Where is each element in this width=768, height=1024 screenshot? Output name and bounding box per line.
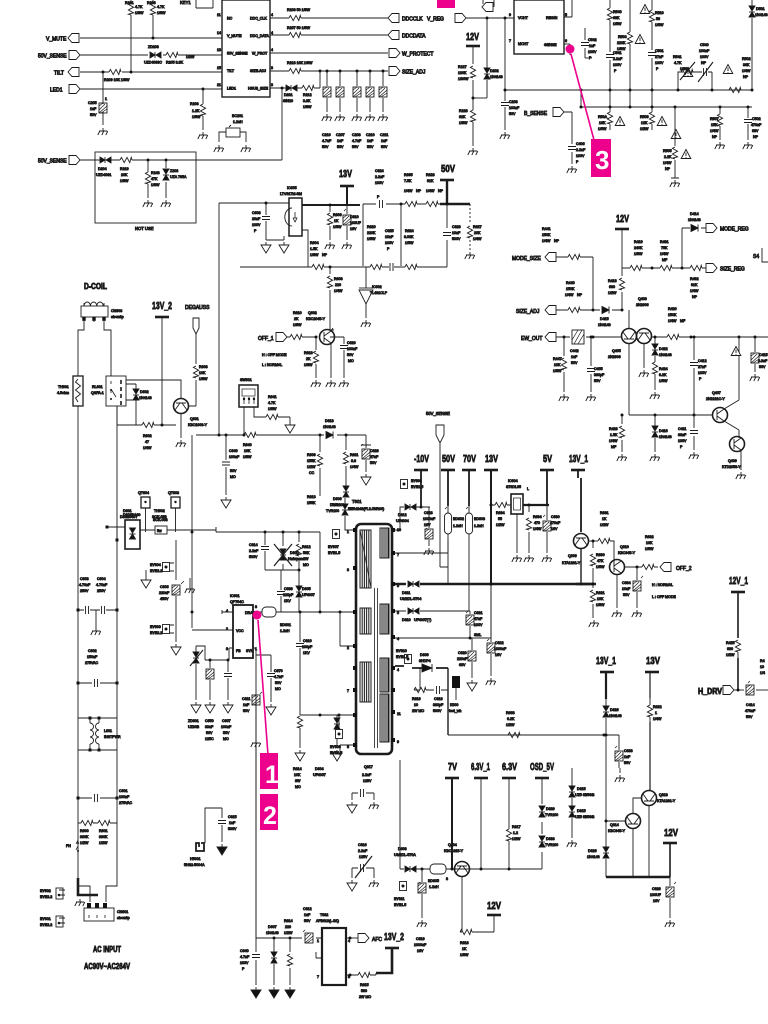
capacitor C670 4.7nF bbox=[256, 655, 284, 702]
svg-text:220K: 220K bbox=[617, 41, 626, 45]
resistor R420 150K on EW bus bbox=[667, 307, 686, 340]
resistor R622 1ohm bbox=[647, 698, 662, 722]
optocoupler IC605 LTV817M bbox=[280, 186, 302, 236]
wire riser x581 bbox=[580, 90, 582, 107]
wire R201 down to TILT line bbox=[130, 38, 132, 72]
nodes on bus y107 bbox=[609, 106, 612, 109]
wire bus y715 bbox=[300, 714, 356, 716]
svg-text:1/4W: 1/4W bbox=[473, 237, 482, 241]
svg-text:FH: FH bbox=[66, 844, 71, 848]
node R541 bbox=[677, 89, 680, 92]
wire relay to diode loop bbox=[126, 384, 136, 404]
svg-text:1N4148: 1N4148 bbox=[755, 13, 768, 17]
svg-text:KTA1281-Y: KTA1281-Y bbox=[657, 799, 676, 803]
ground R423 bbox=[617, 454, 627, 461]
wire MCU section bottom rail bbox=[80, 159, 282, 161]
svg-text:UF4007(T): UF4007(T) bbox=[414, 618, 431, 622]
svg-text:C612: C612 bbox=[303, 907, 312, 911]
svg-text:50V: 50V bbox=[509, 112, 516, 116]
svg-text:450V: 450V bbox=[160, 597, 169, 601]
svg-text:C203: C203 bbox=[352, 133, 361, 137]
svg-text:1uF: 1uF bbox=[571, 355, 578, 359]
svg-text:R613: R613 bbox=[307, 495, 316, 499]
svg-text:470uF: 470uF bbox=[550, 521, 561, 525]
svg-text:7: 7 bbox=[397, 553, 399, 557]
relay RL601 QSFA-1 bbox=[91, 376, 126, 406]
zener D422 1N4148 bbox=[652, 336, 672, 363]
svg-text:100UF: 100UF bbox=[650, 893, 662, 897]
svg-text:Q602: Q602 bbox=[308, 311, 317, 315]
svg-text:500V: 500V bbox=[452, 237, 461, 241]
ground opto open bbox=[279, 242, 289, 253]
diode D626b 1N4148 bbox=[587, 847, 609, 877]
svg-text:AC90V~AC264V: AC90V~AC264V bbox=[84, 962, 131, 971]
svg-text:50V: 50V bbox=[759, 365, 766, 369]
svg-text:UF4004: UF4004 bbox=[396, 519, 409, 523]
svg-text:16V: 16V bbox=[495, 653, 502, 657]
wire 50V_SENSE net vertical riser bbox=[281, 88, 283, 160]
svg-text:2W: 2W bbox=[303, 557, 309, 561]
svg-text:10K: 10K bbox=[646, 541, 653, 545]
svg-text:Q610: Q610 bbox=[620, 545, 629, 549]
svg-text:1/4W: 1/4W bbox=[426, 189, 435, 193]
svg-text:C542: C542 bbox=[588, 38, 597, 42]
svg-text:NP: NP bbox=[322, 253, 328, 257]
svg-text:1/8W: 1/8W bbox=[199, 377, 208, 381]
wire Q609 base bbox=[589, 540, 598, 542]
svg-text:100V: 100V bbox=[700, 55, 709, 59]
svg-text:QT604: QT604 bbox=[138, 491, 149, 495]
svg-text:H : OFF MODE: H : OFF MODE bbox=[262, 353, 287, 357]
wire SW601 legs bbox=[244, 407, 290, 435]
svg-text:SW601: SW601 bbox=[240, 378, 252, 382]
svg-text:R617: R617 bbox=[512, 825, 521, 829]
transistor Q604 KSC1815 bbox=[444, 843, 470, 877]
wire choke bottom rail bbox=[78, 749, 117, 751]
svg-text:UZ30B: UZ30B bbox=[188, 725, 200, 729]
wire bus y107 bbox=[581, 106, 752, 108]
svg-text:68K: 68K bbox=[613, 16, 620, 20]
svg-text:1/4W: 1/4W bbox=[663, 161, 672, 165]
svg-text:R634: R634 bbox=[496, 511, 505, 515]
wire riser x320 bbox=[319, 532, 321, 612]
svg-text:D615: D615 bbox=[577, 787, 586, 791]
ground C408 bbox=[567, 166, 577, 173]
svg-text:1000uF: 1000uF bbox=[494, 647, 507, 651]
svg-text:R509: R509 bbox=[640, 115, 649, 119]
svg-text:8: 8 bbox=[347, 745, 349, 749]
svg-text:3: 3 bbox=[271, 83, 273, 87]
svg-text:W_PROT: W_PROT bbox=[252, 52, 268, 56]
capacitor C414 470nF hatched bbox=[745, 681, 768, 719]
resistor R212 3.3K bbox=[302, 85, 314, 109]
inductor BD603 1.2uH bbox=[466, 507, 486, 534]
capacitor C606 220uF 450V bbox=[159, 540, 184, 642]
svg-text:1/2W: 1/2W bbox=[99, 841, 108, 845]
wire thick out bus y877 bbox=[606, 876, 670, 879]
wire V_MUTE bbox=[80, 37, 222, 39]
svg-text:12V_1: 12V_1 bbox=[729, 575, 748, 587]
grounds OFF_1 cluster bbox=[311, 380, 321, 387]
resistor R611 6.8 vertical bbox=[343, 435, 359, 478]
diode D607 1N4148 bbox=[266, 925, 279, 985]
svg-text:1/5W: 1/5W bbox=[598, 127, 607, 131]
svg-text:C415: C415 bbox=[759, 353, 768, 357]
node R608 bbox=[329, 266, 332, 269]
ground C405 bbox=[586, 394, 596, 401]
capacitor C628 10nF bbox=[443, 225, 461, 241]
svg-text:50V: 50V bbox=[367, 145, 374, 149]
wire DDC_CLK row with resistor R208 bbox=[270, 17, 388, 19]
svg-text:1/4W: 1/4W bbox=[334, 289, 343, 293]
diode D608 U3/2DL-570A bbox=[394, 847, 416, 872]
svg-text:R228: R228 bbox=[459, 109, 468, 113]
svg-text:125V: 125V bbox=[359, 855, 368, 859]
ground below ZD205 bbox=[161, 200, 171, 207]
svg-text:C501: C501 bbox=[655, 49, 664, 53]
wire row y268 bbox=[622, 267, 706, 269]
svg-text:220K: 220K bbox=[367, 231, 376, 235]
ground C606 open bbox=[171, 644, 181, 655]
resistor R201 4.7K vertical bbox=[125, 0, 144, 38]
svg-text:D612: D612 bbox=[398, 513, 407, 517]
svg-text:HSUB_SIZE: HSUB_SIZE bbox=[248, 87, 269, 91]
svg-text:1.2: 1.2 bbox=[513, 831, 518, 835]
capacitor C622 1000uF bbox=[487, 584, 507, 676]
svg-text:47uF: 47uF bbox=[370, 455, 379, 459]
wire bus435 left corner to x192 riser bbox=[191, 435, 193, 628]
wire DDC_DATA row with resistor R207 bbox=[270, 34, 388, 36]
svg-text:TILT: TILT bbox=[227, 69, 235, 73]
svg-text:50V: 50V bbox=[352, 145, 359, 149]
svg-text:11: 11 bbox=[217, 13, 221, 17]
svg-text:1/5W: 1/5W bbox=[596, 603, 605, 607]
svg-text:EYE2.2: EYE2.2 bbox=[150, 631, 162, 635]
wire 6.3V_1 down bbox=[480, 778, 482, 869]
wire 7V down thick bbox=[451, 778, 453, 869]
connector W_PROTECT bbox=[389, 49, 400, 58]
capacitor C624 2.2nF bbox=[375, 169, 385, 208]
svg-text:130K: 130K bbox=[458, 71, 467, 75]
svg-text:LED1: LED1 bbox=[50, 88, 63, 94]
svg-text:C614: C614 bbox=[249, 543, 258, 547]
wire opto bottom right to R604 row bbox=[240, 230, 366, 267]
ground below R203 bbox=[198, 132, 208, 139]
svg-text:U3/2DL-5704: U3/2DL-5704 bbox=[400, 597, 421, 601]
svg-text:EY610: EY610 bbox=[396, 649, 407, 653]
svg-text:4: 4 bbox=[348, 939, 350, 943]
ground C630 bbox=[542, 555, 552, 562]
zener D416 1N4148 bbox=[652, 415, 672, 452]
resistor R447 10K vertical bbox=[553, 336, 567, 393]
resistor R509 12K below bus bbox=[640, 107, 655, 131]
svg-text:C604: C604 bbox=[97, 577, 106, 581]
svg-text:3: 3 bbox=[226, 647, 228, 651]
capacitor C203 100nF bbox=[501, 90, 520, 130]
warning triangle d bbox=[723, 65, 733, 74]
zener D204 UZD4091 bbox=[96, 157, 111, 177]
svg-text:C205: C205 bbox=[88, 101, 97, 105]
svg-text:1/8W: 1/8W bbox=[293, 323, 302, 327]
capacitor C620b 220uF bbox=[457, 638, 476, 678]
wire Q601 emitter bbox=[180, 414, 182, 438]
transformer left pins bbox=[353, 528, 357, 747]
ground R616 open bbox=[295, 750, 305, 761]
ground C203 bbox=[500, 132, 510, 139]
svg-text:1/8W: 1/8W bbox=[268, 407, 277, 411]
connector OFF_2 bbox=[660, 563, 671, 572]
svg-text:50V: 50V bbox=[571, 361, 578, 365]
inductor BC201 1.2uH bbox=[214, 114, 251, 152]
diode D201 SIN20 bbox=[283, 85, 297, 103]
svg-text:560: 560 bbox=[361, 989, 367, 993]
warning triangle h bbox=[681, 150, 691, 159]
svg-text:56K: 56K bbox=[303, 551, 310, 555]
svg-text:1/8W: 1/8W bbox=[151, 183, 160, 187]
svg-text:R201: R201 bbox=[125, 1, 134, 5]
svg-text:TL431CLP: TL431CLP bbox=[370, 291, 388, 295]
svg-text:KTD2058-Y: KTD2058-Y bbox=[722, 465, 741, 469]
svg-text:R203: R203 bbox=[190, 102, 199, 106]
svg-text:D611: D611 bbox=[402, 591, 410, 595]
svg-text:50V: 50V bbox=[243, 709, 250, 713]
svg-text:IC605: IC605 bbox=[287, 186, 297, 190]
wire D609 out riser bbox=[447, 668, 449, 735]
ground IC604 bbox=[512, 555, 522, 562]
svg-text:DDC_DATA: DDC_DATA bbox=[250, 34, 269, 38]
svg-text:DDC_CLK: DDC_CLK bbox=[250, 17, 267, 21]
svg-text:R208 50 1/8W: R208 50 1/8W bbox=[287, 8, 311, 12]
svg-text:220uF: 220uF bbox=[457, 657, 468, 661]
svg-text:R50A: R50A bbox=[598, 115, 608, 119]
wire 13V_2 down bbox=[161, 317, 163, 425]
svg-text:100UF: 100UF bbox=[350, 221, 362, 225]
capacitor C607 100nF bbox=[221, 659, 232, 742]
resistor R206 4.7K vertical bbox=[147, 0, 166, 38]
resistor R603 10K vertical bbox=[193, 365, 208, 381]
svg-text:1/8W: 1/8W bbox=[135, 11, 144, 15]
svg-text:NP: NP bbox=[665, 167, 671, 171]
svg-text:1/4W: 1/4W bbox=[350, 465, 359, 469]
resistor R500 220K vertical bbox=[617, 0, 633, 107]
wire Q610 row y567 bbox=[625, 566, 658, 568]
ground Q409 bbox=[736, 472, 746, 479]
svg-text:FB: FB bbox=[236, 649, 241, 653]
svg-text:1/2W: 1/2W bbox=[80, 841, 89, 845]
svg-text:1N4148: 1N4148 bbox=[659, 353, 672, 357]
ground AC hatched bbox=[75, 899, 85, 906]
ground IC602 bbox=[361, 320, 371, 327]
svg-text:4: 4 bbox=[271, 13, 273, 17]
svg-text:6.2K: 6.2K bbox=[507, 717, 515, 721]
resistor R600 330K bbox=[78, 820, 95, 845]
wire bridge out bbox=[140, 529, 216, 531]
svg-text:R614: R614 bbox=[284, 919, 293, 923]
svg-text:C619: C619 bbox=[416, 937, 425, 941]
node V_REG riser bbox=[486, 17, 489, 20]
transformer winding right bottom bbox=[380, 694, 389, 742]
svg-text:4.7K: 4.7K bbox=[268, 401, 276, 405]
svg-text:1.2uH: 1.2uH bbox=[453, 524, 463, 528]
svg-text:5HS2-5004A: 5HS2-5004A bbox=[184, 863, 205, 867]
svg-text:EYE2.2: EYE2.2 bbox=[40, 923, 52, 927]
resistor R663 6.2K bbox=[506, 711, 520, 738]
wire SIZE_ADJ row with resistor R213 10K bbox=[270, 70, 388, 72]
svg-text:R611: R611 bbox=[350, 453, 358, 457]
svg-text:R419: R419 bbox=[634, 240, 643, 244]
svg-text:50V: 50V bbox=[441, 163, 455, 175]
svg-text:1/8W: 1/8W bbox=[680, 67, 689, 71]
svg-text:1K: 1K bbox=[602, 517, 607, 521]
resistor R502 36K on bus bbox=[726, 57, 752, 93]
wire R619 branch bbox=[414, 668, 434, 690]
wire Q604 emitter to R618 bbox=[460, 877, 494, 932]
svg-text:C607: C607 bbox=[222, 719, 231, 723]
svg-text:155K: 155K bbox=[307, 501, 316, 505]
diode D60D crossed bbox=[265, 531, 304, 571]
svg-text:R447: R447 bbox=[553, 357, 562, 361]
wire transformer leg to bus bbox=[399, 760, 401, 869]
svg-text:70V: 70V bbox=[463, 453, 476, 465]
svg-text:1/30W: 1/30W bbox=[458, 77, 469, 81]
ground R614b solid bbox=[285, 987, 295, 998]
svg-text:R632: R632 bbox=[645, 535, 654, 539]
ground below C205 bbox=[98, 128, 108, 135]
op-amp U201 MCU box bbox=[222, 0, 270, 97]
node R206/V_MUTE bbox=[152, 37, 155, 40]
ground below R243 bbox=[143, 200, 153, 207]
svg-text:C622: C622 bbox=[495, 641, 504, 645]
svg-text:4.5ohm: 4.5ohm bbox=[57, 391, 69, 395]
svg-text:1uF: 1uF bbox=[367, 139, 374, 143]
svg-text:10K: 10K bbox=[199, 371, 206, 375]
svg-text:R500: R500 bbox=[618, 35, 627, 39]
wire OFF_1 to base bbox=[287, 336, 316, 338]
svg-text:KSC1008-Y: KSC1008-Y bbox=[188, 423, 208, 427]
svg-text:D-COIL: D-COIL bbox=[84, 282, 107, 291]
resistor R610 2K bbox=[290, 311, 302, 340]
ground D618 open bbox=[332, 750, 342, 761]
svg-text:1/2W: 1/2W bbox=[726, 653, 735, 657]
svg-text:250V: 250V bbox=[80, 589, 89, 593]
svg-text:1uF: 1uF bbox=[90, 107, 97, 111]
svg-text:100V: 100V bbox=[698, 371, 707, 375]
svg-text:Q408: Q408 bbox=[638, 297, 647, 301]
svg-text:C210: C210 bbox=[322, 133, 331, 137]
capacitor C612 1uF hatched on bus bbox=[303, 907, 313, 943]
svg-text:13V_1: 13V_1 bbox=[569, 453, 588, 465]
wire Q614 base row bbox=[606, 820, 625, 822]
svg-text:MO: MO bbox=[230, 475, 236, 479]
capacitor C408 2.2nF bbox=[568, 142, 586, 164]
svg-text:C650: C650 bbox=[205, 719, 214, 723]
svg-text:470nF: 470nF bbox=[751, 123, 762, 127]
resistor SCK-063 box bbox=[153, 518, 168, 534]
svg-text:13: 13 bbox=[217, 48, 221, 52]
svg-text:C624: C624 bbox=[375, 169, 384, 173]
svg-text:D633: D633 bbox=[546, 837, 555, 841]
svg-text:1uF: 1uF bbox=[381, 139, 388, 143]
node y268 b bbox=[681, 267, 684, 270]
svg-text:1N4148: 1N4148 bbox=[659, 435, 672, 439]
warning triangle e bbox=[615, 117, 625, 126]
svg-text:MODE_SIZE: MODE_SIZE bbox=[512, 256, 542, 262]
transistor Q601 KSC1008 bbox=[174, 399, 208, 428]
svg-text:1uF: 1uF bbox=[624, 755, 631, 759]
svg-text:9: 9 bbox=[397, 740, 399, 744]
svg-text:C411: C411 bbox=[678, 427, 686, 431]
resistor R243 47K vertical bbox=[145, 160, 160, 198]
svg-text:SIZE_REG: SIZE_REG bbox=[720, 267, 745, 273]
ground C502 bbox=[743, 142, 753, 149]
svg-text:EY608: EY608 bbox=[330, 745, 341, 749]
svg-text:R505: R505 bbox=[663, 149, 672, 153]
svg-text:1.2K: 1.2K bbox=[192, 109, 200, 113]
capacitor C405 330pF bbox=[587, 336, 605, 393]
svg-text:R219: R219 bbox=[120, 167, 129, 171]
svg-text:MF: MF bbox=[680, 319, 686, 323]
svg-text:150nF: 150nF bbox=[87, 655, 98, 659]
resistor R227 130K bbox=[458, 65, 476, 81]
svg-text:12K: 12K bbox=[641, 121, 648, 125]
svg-text:R243: R243 bbox=[151, 171, 160, 175]
resistor R481 75K bbox=[660, 240, 672, 271]
component EY601 EYE2.2 bbox=[40, 916, 65, 927]
connector AFC bbox=[358, 934, 369, 943]
wire main bus y435 bbox=[196, 435, 366, 445]
svg-text:50V: 50V bbox=[370, 461, 377, 465]
svg-text:D602: D602 bbox=[140, 390, 149, 394]
warning triangle c bbox=[683, 68, 693, 77]
svg-text:TH601: TH601 bbox=[58, 385, 69, 389]
ground C617 left open bbox=[347, 802, 357, 813]
svg-text:13V_2: 13V_2 bbox=[384, 931, 404, 943]
svg-text:50V_SENSE: 50V_SENSE bbox=[38, 54, 67, 60]
wire 13V_1 down bbox=[605, 672, 607, 699]
svg-text:27nF: 27nF bbox=[698, 365, 707, 369]
svg-text:500V: 500V bbox=[249, 555, 258, 559]
svg-text:K600: K600 bbox=[450, 703, 458, 707]
svg-text:50V: 50V bbox=[381, 145, 388, 149]
ground R684 bbox=[524, 555, 534, 562]
marker pink dot at IC601 bbox=[253, 611, 262, 620]
svg-text:500V: 500V bbox=[433, 709, 442, 713]
svg-text:1/8W: 1/8W bbox=[243, 455, 252, 459]
wire main horizontal bus y90 bbox=[505, 89, 752, 91]
svg-text:DDCCLK: DDCCLK bbox=[402, 17, 423, 23]
ground Q406 bbox=[639, 370, 649, 377]
svg-text:C640: C640 bbox=[229, 449, 238, 453]
svg-text:NP: NP bbox=[743, 75, 749, 79]
svg-text:L601: L601 bbox=[104, 729, 112, 733]
component EY611 EYE1.5 bbox=[394, 882, 407, 908]
svg-text:EYE1.5: EYE1.5 bbox=[328, 551, 340, 555]
zener ZD203 UZD4093C bbox=[144, 45, 162, 65]
svg-text:MF: MF bbox=[611, 445, 617, 449]
svg-text:100V: 100V bbox=[385, 241, 394, 245]
svg-text:2N2221C-Y: 2N2221C-Y bbox=[706, 397, 725, 401]
svg-text:3: 3 bbox=[271, 66, 273, 70]
svg-text:1: 1 bbox=[317, 939, 319, 943]
capacitor C415 3.3nF right edge bbox=[751, 336, 768, 373]
connector V_MUTE bbox=[68, 34, 79, 43]
svg-text:R507: R507 bbox=[710, 117, 719, 121]
svg-text:100V: 100V bbox=[576, 154, 585, 158]
svg-text:16V: 16V bbox=[417, 949, 424, 953]
svg-text:1/4W: 1/4W bbox=[404, 189, 413, 193]
svg-text:1.5K: 1.5K bbox=[610, 433, 618, 437]
svg-text:SCK-063: SCK-063 bbox=[153, 518, 168, 522]
